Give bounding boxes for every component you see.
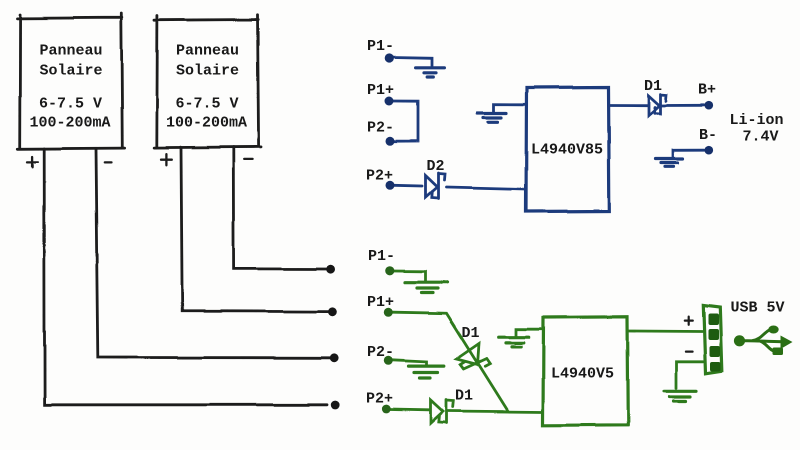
svg-text:P2+: P2+: [366, 391, 393, 408]
svg-text:Solaire: Solaire: [176, 63, 239, 80]
svg-text:P1-: P1-: [367, 38, 394, 55]
svg-text:B-: B-: [699, 127, 717, 144]
svg-text:D1: D1: [644, 78, 662, 95]
svg-text:P2-: P2-: [367, 344, 394, 361]
svg-text:L4940V5: L4940V5: [551, 366, 614, 383]
svg-text:USB 5V: USB 5V: [731, 300, 785, 317]
svg-text:P2-: P2-: [367, 120, 394, 137]
svg-text:L4940V85: L4940V85: [531, 142, 603, 159]
svg-text:B+: B+: [698, 82, 716, 99]
svg-text:Solaire: Solaire: [39, 63, 102, 80]
svg-text:6-7.5 V: 6-7.5 V: [175, 96, 238, 113]
svg-text:100-200mA: 100-200mA: [29, 115, 110, 132]
svg-text:P1-: P1-: [368, 248, 395, 265]
svg-text:Li-ion: Li-ion: [730, 112, 784, 129]
svg-text:P2+: P2+: [366, 168, 393, 185]
svg-text:6-7.5 V: 6-7.5 V: [39, 96, 102, 113]
svg-text:D1: D1: [455, 388, 473, 405]
svg-text:D2: D2: [427, 158, 445, 175]
svg-text:7.4V: 7.4V: [743, 129, 779, 146]
svg-text:P1+: P1+: [367, 82, 394, 99]
svg-text:Panneau: Panneau: [39, 43, 102, 60]
svg-text:P1+: P1+: [367, 294, 394, 311]
svg-text:D1: D1: [462, 325, 480, 342]
svg-text:Panneau: Panneau: [176, 43, 239, 60]
svg-text:100-200mA: 100-200mA: [166, 115, 247, 132]
